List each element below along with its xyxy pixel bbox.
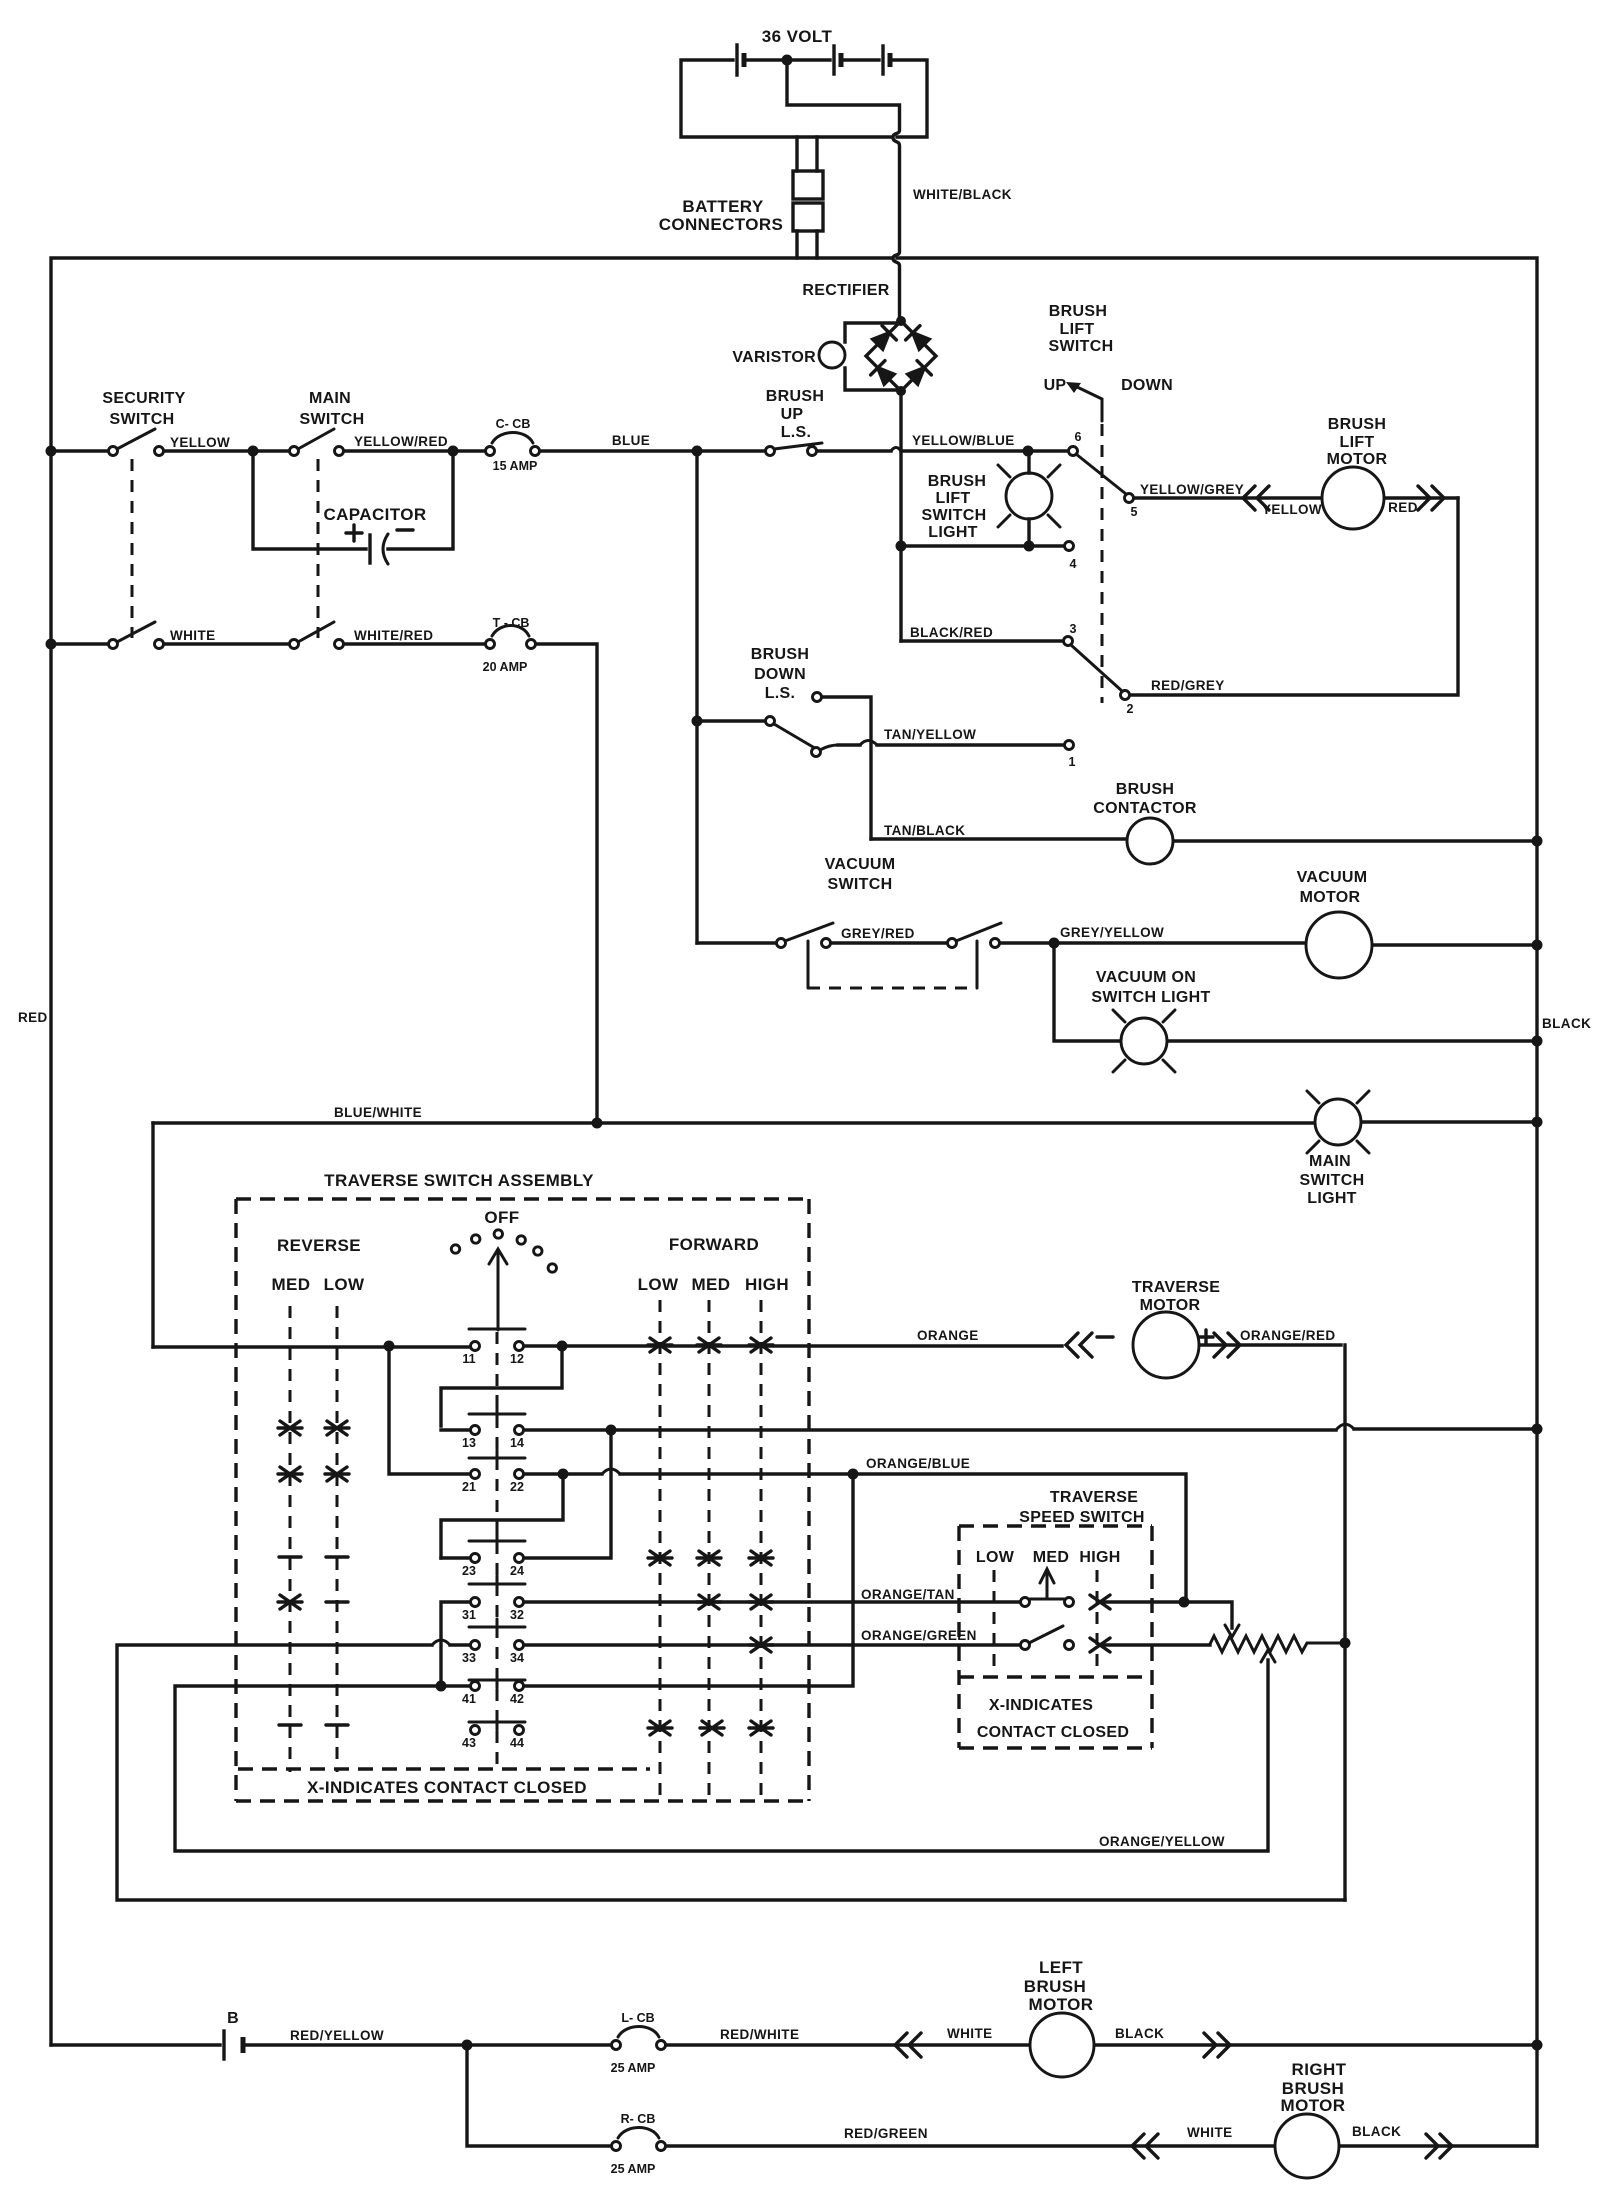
svg-text:TRAVERSE: TRAVERSE bbox=[1050, 1489, 1138, 1506]
svg-text:BRUSH: BRUSH bbox=[751, 646, 809, 663]
svg-text:44: 44 bbox=[510, 1736, 524, 1750]
svg-text:GREY/YELLOW: GREY/YELLOW bbox=[1060, 925, 1164, 940]
svg-text:RED: RED bbox=[1388, 500, 1418, 515]
svg-text:LIGHT: LIGHT bbox=[928, 524, 978, 541]
svg-text:FORWARD: FORWARD bbox=[669, 1235, 759, 1254]
svg-text:21: 21 bbox=[462, 1480, 476, 1494]
svg-text:11: 11 bbox=[462, 1352, 475, 1366]
svg-text:32: 32 bbox=[510, 1608, 524, 1622]
svg-text:BLACK: BLACK bbox=[1352, 2124, 1401, 2139]
svg-text:MED: MED bbox=[692, 1275, 731, 1294]
svg-text:RED/GREY: RED/GREY bbox=[1151, 678, 1225, 693]
svg-text:34: 34 bbox=[510, 1651, 524, 1665]
svg-text:VACUUM: VACUUM bbox=[825, 856, 896, 873]
svg-text:RED/GREEN: RED/GREEN bbox=[844, 2126, 928, 2141]
svg-text:LOW: LOW bbox=[638, 1275, 679, 1294]
svg-text:LIFT: LIFT bbox=[936, 490, 971, 507]
svg-text:BLUE: BLUE bbox=[612, 433, 650, 448]
svg-text:25 AMP: 25 AMP bbox=[611, 2162, 656, 2176]
svg-text:L- CB: L- CB bbox=[621, 2011, 654, 2025]
svg-text:WHITE: WHITE bbox=[170, 628, 216, 643]
svg-text:WHITE/RED: WHITE/RED bbox=[354, 628, 433, 643]
svg-text:DOWN: DOWN bbox=[754, 666, 806, 683]
svg-text:HIGH: HIGH bbox=[1079, 1549, 1120, 1566]
svg-text:25 AMP: 25 AMP bbox=[611, 2061, 656, 2075]
svg-text:14: 14 bbox=[510, 1436, 524, 1450]
svg-text:20 AMP: 20 AMP bbox=[483, 660, 528, 674]
svg-text:YELLOW: YELLOW bbox=[170, 435, 230, 450]
svg-text:31: 31 bbox=[462, 1608, 476, 1622]
svg-text:TAN/YELLOW: TAN/YELLOW bbox=[884, 727, 976, 742]
svg-text:SWITCH: SWITCH bbox=[110, 411, 175, 428]
svg-text:RECTIFIER: RECTIFIER bbox=[802, 282, 889, 299]
svg-text:L.S.: L.S. bbox=[781, 424, 812, 441]
svg-text:5: 5 bbox=[1131, 505, 1138, 519]
svg-text:MOTOR: MOTOR bbox=[1029, 1995, 1094, 2014]
svg-text:MOTOR: MOTOR bbox=[1300, 889, 1361, 906]
svg-text:ORANGE/YELLOW: ORANGE/YELLOW bbox=[1099, 1834, 1225, 1849]
svg-text:6: 6 bbox=[1075, 430, 1082, 444]
svg-text:SWITCH: SWITCH bbox=[1300, 1172, 1365, 1189]
svg-text:23: 23 bbox=[462, 1564, 476, 1578]
svg-text:UP: UP bbox=[781, 406, 804, 423]
svg-text:LIFT: LIFT bbox=[1340, 434, 1375, 451]
svg-text:L.S.: L.S. bbox=[765, 685, 796, 702]
svg-text:WHITE: WHITE bbox=[947, 2026, 993, 2041]
svg-text:MAIN: MAIN bbox=[1309, 1153, 1351, 1170]
svg-text:SWITCH: SWITCH bbox=[300, 411, 365, 428]
svg-text:ORANGE: ORANGE bbox=[917, 1328, 979, 1343]
svg-text:SECURITY: SECURITY bbox=[102, 390, 185, 407]
svg-text:BRUSH: BRUSH bbox=[1328, 416, 1386, 433]
svg-text:UP: UP bbox=[1044, 377, 1067, 394]
svg-text:SWITCH LIGHT: SWITCH LIGHT bbox=[1091, 989, 1210, 1006]
svg-text:TRAVERSE: TRAVERSE bbox=[1132, 1279, 1220, 1296]
svg-text:BRUSH: BRUSH bbox=[928, 473, 986, 490]
svg-text:SPEED SWITCH: SPEED SWITCH bbox=[1019, 1509, 1144, 1526]
svg-text:ORANGE/RED: ORANGE/RED bbox=[1240, 1328, 1336, 1343]
svg-text:YELLOW: YELLOW bbox=[1262, 502, 1322, 517]
svg-text:TRAVERSE SWITCH ASSEMBLY: TRAVERSE SWITCH ASSEMBLY bbox=[324, 1171, 594, 1190]
svg-text:MOTOR: MOTOR bbox=[1281, 2096, 1346, 2115]
svg-text:WHITE/BLACK: WHITE/BLACK bbox=[913, 187, 1012, 202]
svg-text:BRUSH: BRUSH bbox=[1024, 1977, 1086, 1996]
svg-text:RED/YELLOW: RED/YELLOW bbox=[290, 2028, 384, 2043]
svg-text:CONNECTORS: CONNECTORS bbox=[659, 215, 784, 234]
svg-text:BRUSH: BRUSH bbox=[1116, 781, 1174, 798]
svg-text:MED: MED bbox=[1033, 1549, 1069, 1566]
svg-text:43: 43 bbox=[462, 1736, 476, 1750]
svg-text:LOW: LOW bbox=[324, 1275, 365, 1294]
svg-text:VACUUM: VACUUM bbox=[1297, 869, 1368, 886]
svg-text:YELLOW/RED: YELLOW/RED bbox=[354, 434, 448, 449]
svg-text:SWITCH: SWITCH bbox=[1049, 338, 1114, 355]
svg-text:RED: RED bbox=[18, 1010, 48, 1025]
svg-text:22: 22 bbox=[510, 1480, 524, 1494]
svg-text:BATTERY: BATTERY bbox=[682, 197, 763, 216]
svg-text:12: 12 bbox=[510, 1352, 524, 1366]
svg-text:CONTACTOR: CONTACTOR bbox=[1093, 800, 1197, 817]
svg-text:MOTOR: MOTOR bbox=[1327, 451, 1388, 468]
svg-text:RIGHT: RIGHT bbox=[1292, 2060, 1347, 2079]
svg-text:33: 33 bbox=[462, 1651, 476, 1665]
svg-text:2: 2 bbox=[1127, 702, 1134, 716]
svg-text:LIFT: LIFT bbox=[1060, 321, 1095, 338]
svg-text:BLACK: BLACK bbox=[1115, 2026, 1164, 2041]
svg-text:BLUE/WHITE: BLUE/WHITE bbox=[334, 1105, 422, 1120]
svg-text:4: 4 bbox=[1070, 557, 1077, 571]
svg-text:BRUSH: BRUSH bbox=[766, 388, 824, 405]
svg-text:HIGH: HIGH bbox=[745, 1275, 789, 1294]
svg-text:T - CB: T - CB bbox=[493, 616, 530, 630]
svg-text:ORANGE/TAN: ORANGE/TAN bbox=[861, 1587, 955, 1602]
svg-text:LOW: LOW bbox=[976, 1549, 1015, 1566]
svg-text:REVERSE: REVERSE bbox=[277, 1236, 361, 1255]
svg-text:BLACK/RED: BLACK/RED bbox=[910, 625, 993, 640]
svg-text:LIGHT: LIGHT bbox=[1307, 1190, 1357, 1207]
svg-text:MED: MED bbox=[272, 1275, 311, 1294]
svg-text:TAN/BLACK: TAN/BLACK bbox=[884, 823, 965, 838]
svg-text:15 AMP: 15 AMP bbox=[493, 459, 538, 473]
svg-text:CONTACT CLOSED: CONTACT CLOSED bbox=[977, 1724, 1129, 1741]
svg-text:LEFT: LEFT bbox=[1039, 1958, 1083, 1977]
svg-text:VARISTOR: VARISTOR bbox=[732, 349, 816, 366]
svg-text:WHITE: WHITE bbox=[1187, 2125, 1233, 2140]
svg-text:OFF: OFF bbox=[484, 1208, 519, 1227]
svg-text:GREY/RED: GREY/RED bbox=[841, 926, 915, 941]
svg-text:B: B bbox=[227, 2010, 239, 2027]
svg-text:41: 41 bbox=[462, 1692, 476, 1706]
svg-text:DOWN: DOWN bbox=[1121, 377, 1173, 394]
svg-text:X-INDICATES CONTACT CLOSED: X-INDICATES CONTACT CLOSED bbox=[307, 1778, 587, 1797]
svg-text:YELLOW/BLUE: YELLOW/BLUE bbox=[912, 433, 1015, 448]
svg-text:42: 42 bbox=[510, 1692, 524, 1706]
svg-text:SWITCH: SWITCH bbox=[828, 876, 893, 893]
svg-text:BRUSH: BRUSH bbox=[1049, 303, 1107, 320]
svg-text:YELLOW/GREY: YELLOW/GREY bbox=[1140, 482, 1244, 497]
svg-text:SWITCH: SWITCH bbox=[922, 507, 987, 524]
svg-text:BLACK: BLACK bbox=[1542, 1016, 1591, 1031]
svg-text:24: 24 bbox=[510, 1564, 524, 1578]
svg-text:C- CB: C- CB bbox=[496, 417, 531, 431]
svg-text:RED/WHITE: RED/WHITE bbox=[720, 2027, 799, 2042]
svg-text:3: 3 bbox=[1070, 622, 1077, 636]
svg-text:36 VOLT: 36 VOLT bbox=[762, 27, 833, 46]
svg-text:13: 13 bbox=[462, 1436, 476, 1450]
svg-text:VACUUM ON: VACUUM ON bbox=[1096, 969, 1196, 986]
svg-text:MAIN: MAIN bbox=[309, 390, 351, 407]
svg-text:X-INDICATES: X-INDICATES bbox=[989, 1697, 1093, 1714]
svg-text:ORANGE/BLUE: ORANGE/BLUE bbox=[866, 1456, 970, 1471]
svg-text:1: 1 bbox=[1069, 755, 1076, 769]
svg-text:CAPACITOR: CAPACITOR bbox=[323, 505, 426, 524]
svg-text:R- CB: R- CB bbox=[621, 2112, 656, 2126]
